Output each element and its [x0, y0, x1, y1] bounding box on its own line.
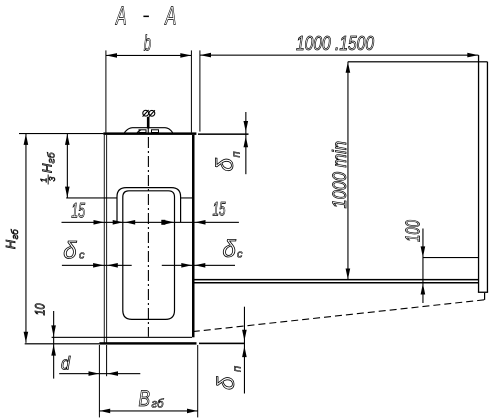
bottom flange top face line	[52, 337, 192, 338]
dimension delta-p bottom: label (rotated)	[213, 366, 243, 390]
dimension delta-c left: line and arrows	[62, 263, 132, 268]
column bottom edge	[478, 292, 488, 293]
girder right web (thick)	[192, 135, 195, 337]
dimension H-gb: label (rotated)	[4, 229, 21, 249]
dimension 100: label (rotated)	[403, 220, 425, 242]
bottom flange extension line left	[25, 343, 100, 344]
dimension 15-15: line	[62, 222, 239, 223]
rail symbol (two slashed circles)	[143, 110, 155, 117]
svg-text:п: п	[230, 151, 242, 157]
dimension delta-p top: label (rotated)	[212, 151, 242, 171]
dimension 1000..1500: extension line	[199, 50, 200, 131]
stiffener wing line right	[181, 197, 192, 198]
dimension delta-c left: label	[63, 237, 85, 264]
dimension b: extension lines	[105, 50, 191, 132]
svg-text:δ: δ	[213, 376, 240, 390]
centre line (dash-dot)	[147, 137, 149, 337]
svg-text:100: 100	[403, 220, 425, 242]
rail clamps	[137, 130, 159, 133]
svg-text:15: 15	[213, 199, 226, 221]
svg-text:δ: δ	[63, 237, 77, 264]
dimension B-gb: extension lines	[99, 345, 198, 417]
dimension delta-c right: line and arrows	[162, 263, 235, 268]
dimension delta-p top: line and arrows	[244, 112, 249, 174]
svg-text:d: d	[61, 353, 71, 373]
girder top flange (thick)	[103, 132, 196, 135]
dimension 1000 min: line and arrows	[346, 62, 351, 280]
dimension B-gb: label	[139, 386, 165, 411]
dimension B-gb: line and arrows	[99, 409, 197, 414]
rail foot	[124, 128, 172, 133]
walkway platform (double line)	[194, 279, 479, 284]
section title A - A	[115, 1, 177, 31]
svg-text:10: 10	[32, 303, 48, 315]
dimension 10: line and arrows	[51, 311, 56, 379]
stiffener wing line left	[66, 197, 117, 198]
svg-text:3: 3	[47, 177, 57, 182]
dimension 1000 min: label (rotated)	[329, 141, 351, 209]
svg-text:В: В	[139, 386, 151, 411]
girder left web (double thin lines)	[104, 135, 107, 345]
dimension 10: label (rotated)	[32, 303, 48, 315]
building column left face	[478, 55, 479, 292]
svg-text:с: с	[79, 250, 85, 262]
dimension 100: extension line	[423, 257, 479, 258]
dimension 1000..1500: line and arrows	[200, 53, 479, 58]
dimension d: line and arrows	[59, 371, 140, 376]
dimension 15-15: arrows right	[161, 220, 205, 225]
dimension b: line and arrows	[106, 53, 191, 58]
bottom flange (thick)	[99, 342, 196, 344]
stiffener outer hat contour	[117, 188, 181, 223]
dimension d: extension line	[106, 345, 107, 376]
dimension delta-p bottom: line and arrows	[242, 307, 247, 394]
svg-text:п: п	[231, 366, 243, 372]
crane clearance dashed line	[193, 300, 485, 332]
svg-text:гб: гб	[10, 229, 21, 240]
svg-text:Н: Н	[4, 239, 18, 249]
stiffener inner contour (rounded slot)	[123, 191, 175, 320]
svg-text:А: А	[115, 1, 127, 31]
dimension H-gb: line and arrows	[24, 134, 29, 343]
svg-text:гб: гб	[152, 399, 165, 411]
svg-text:А: А	[164, 1, 176, 31]
dimension 1/3 H-gb: line and arrows	[65, 134, 70, 198]
bottom flange extension line right (for delta-p bottom)	[199, 343, 245, 345]
dimension delta-c right: label	[223, 236, 244, 263]
dimension 100: line and arrows	[421, 229, 426, 304]
svg-text:гб: гб	[46, 151, 58, 163]
svg-text:с: с	[237, 249, 243, 261]
top flange extension line right (for delta-p top)	[198, 133, 249, 135]
top flange extension line left	[19, 133, 103, 134]
dimension 1/3 H-gb: label (rotated, stacked fraction)	[39, 151, 58, 184]
svg-text:Н: Н	[40, 163, 55, 173]
roof line extension (for 1000 min)	[348, 61, 488, 62]
svg-text:b: b	[144, 31, 151, 56]
building column right face	[487, 62, 488, 293]
svg-text:δ: δ	[223, 236, 237, 263]
dimension 15-15: arrows left	[94, 220, 136, 225]
svg-text:1000 min: 1000 min	[329, 141, 351, 209]
svg-text:1000 .1500: 1000 .1500	[296, 33, 374, 55]
svg-text:δ: δ	[212, 158, 239, 172]
svg-text:15: 15	[71, 200, 85, 223]
column bottom step	[484, 293, 485, 300]
rail stem	[147, 117, 150, 129]
